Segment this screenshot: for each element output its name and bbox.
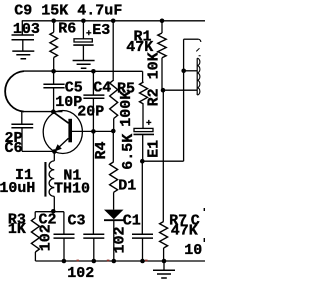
node rail/R5: [111, 19, 116, 24]
node rail/R1: [160, 19, 165, 24]
capacitor C2 plates: [54, 234, 75, 238]
wire R4 top lead: [112, 131, 114, 162]
ground under C9: [12, 51, 34, 59]
node B2 C4: [91, 69, 96, 74]
capacitor C9 lead: [21, 21, 23, 35]
wire emitter to I1: [53, 152, 55, 161]
wire to E1: [142, 104, 144, 128]
wire R7 bottom lead: [163, 248, 165, 261]
svg-text:D1: D1: [118, 177, 136, 194]
resistor R3 1K: [31, 218, 39, 252]
svg-text:1K: 1K: [8, 221, 26, 238]
capacitor E3 electrolytic plates: [74, 39, 92, 42]
wire E1 bottom lead: [142, 134, 144, 161]
svg-text:E3: E3: [92, 22, 110, 39]
plus sign E1 polarity: [146, 120, 151, 125]
capacitor C4 bottom lead: [92, 98, 94, 131]
svg-text:102: 102: [112, 226, 129, 253]
wire E3 to ground: [82, 46, 84, 61]
wire R5 top lead: [112, 21, 114, 80]
wire coil remnant ticks: [196, 48, 200, 56]
ground under E3: [73, 61, 95, 69]
wire tank loop top: [24, 70, 54, 72]
wire top rail: [22, 20, 205, 22]
wire R6 top lead: [53, 21, 55, 32]
wire tank loop bottom: [24, 111, 63, 113]
diode D1: [104, 210, 124, 220]
wire R4 to D1: [113, 192, 115, 209]
node collector/C5: [51, 109, 56, 114]
wire coil tap upper: [184, 70, 198, 72]
wire right vertical: [183, 39, 185, 161]
node rail/E3: [81, 19, 86, 24]
node B1 R6/C5: [51, 69, 56, 74]
svg-text:10uH: 10uH: [0, 180, 35, 197]
svg-text:TH10: TH10: [54, 181, 90, 198]
svg-text:C6: C6: [5, 140, 23, 157]
capacitor C3 plates: [83, 234, 104, 238]
capacitor C1 bottom lead: [142, 238, 144, 261]
wire node B horizontal: [54, 70, 143, 72]
node rail/D1: [112, 259, 117, 264]
svg-text:100K: 100K: [118, 91, 135, 127]
node rail/C3: [92, 259, 97, 264]
svg-text:102: 102: [67, 265, 94, 282]
node rail/C2: [62, 259, 67, 264]
svg-text:R2 10K: R2 10K: [145, 52, 162, 106]
wire bottom rail: [35, 260, 205, 262]
capacitor C2 bottom lead: [63, 238, 65, 261]
resistor R4 6.5K: [110, 162, 118, 192]
transformer core bar N1: [44, 162, 46, 197]
wire E3 top lead: [82, 21, 84, 39]
resistor R5b (bias): [140, 82, 148, 104]
transistor Q1: [43, 111, 82, 154]
wire R6 bottom lead: [53, 58, 55, 72]
wire R5 bottom lead: [113, 119, 115, 132]
svg-text:6.5K: 6.5K: [120, 134, 137, 170]
capacitor C2 top lead: [63, 212, 65, 235]
wire corner down to R5b: [142, 71, 144, 82]
node base/C4/C3: [91, 129, 96, 134]
svg-text:10: 10: [184, 242, 202, 259]
capacitor C6 top lead: [21, 112, 23, 124]
inductor L2 output coil (right edge): [197, 58, 200, 95]
wire base to R4/R5 nodes: [72, 130, 113, 132]
node rail/C1: [140, 259, 145, 264]
wire R1 top lead: [161, 21, 163, 33]
resistor R7 47K: [160, 222, 168, 249]
svg-text:C9 15K 4.7uF: C9 15K 4.7uF: [14, 3, 122, 20]
inductor I1 10uH winding: [49, 161, 54, 197]
artifact speckles (decorative): [77, 260, 79, 262]
wire C6 to emitter: [22, 150, 54, 152]
capacitor C3 bottom lead: [93, 238, 95, 261]
inductor tank loop L (rounded loop): [5, 71, 24, 112]
ground bottom right: [153, 270, 175, 278]
capacitor C6 bottom lead: [21, 128, 23, 152]
wire D1 to bottom rail: [113, 220, 115, 261]
capacitor C5 plates: [43, 84, 64, 88]
node base/R5/R4: [111, 129, 116, 134]
svg-text:R4: R4: [93, 141, 110, 159]
capacitor C9 plates: [12, 35, 35, 40]
wire C9 to ground: [22, 40, 24, 51]
capacitor C4 plates: [83, 95, 104, 98]
node tap upper: [181, 69, 186, 74]
svg-text:C3: C3: [68, 212, 86, 229]
wire coil tap lower / R1 bottom: [163, 89, 197, 91]
wire to ground: [163, 261, 165, 270]
plus sign E3 polarity: [86, 30, 91, 35]
resistor R1/R2 47K: [158, 33, 166, 58]
capacitor C5 top lead: [53, 71, 55, 84]
capacitor C1 top lead: [141, 161, 143, 234]
wire to coil top: [184, 38, 199, 40]
svg-text:102: 102: [37, 224, 54, 251]
node F I1/R3/C2: [51, 209, 56, 214]
svg-text:C4: C4: [93, 80, 111, 97]
svg-text:47K: 47K: [171, 223, 198, 240]
wire R3 top lead: [34, 212, 36, 218]
wire coil top remnant arc: [198, 39, 200, 42]
capacitor E1 electrolytic plates: [134, 128, 153, 131]
svg-text:R6: R6: [58, 20, 76, 37]
capacitor C1 plates: [132, 234, 153, 238]
wire node E horizontal: [142, 160, 183, 162]
capacitor C6 plates: [11, 124, 33, 128]
wire R1 bottom lead: [161, 58, 163, 90]
wire/capacitor C3 top lead: [92, 131, 94, 234]
wire R3 to bottom rail: [34, 252, 36, 261]
resistor R6: [50, 32, 58, 57]
wire node F horizontal: [35, 211, 64, 213]
node E E1/C1: [140, 159, 145, 164]
node rail/R6: [51, 19, 56, 24]
capacitor C4 top lead: [92, 71, 94, 95]
resistor R5 100K: [110, 80, 118, 119]
capacitor C5 bottom lead: [53, 88, 55, 112]
node R1/R7/tap: [161, 88, 166, 93]
capacitor C8 (cropped at edge): [204, 208, 205, 211]
svg-text:E1: E1: [145, 140, 162, 158]
wire R7 top lead: [162, 90, 164, 221]
node rail/ground: [162, 259, 167, 264]
node emitter: [52, 149, 57, 154]
svg-text:20P: 20P: [77, 103, 104, 120]
wire I1 to node: [53, 196, 55, 211]
svg-text:103: 103: [13, 21, 40, 38]
